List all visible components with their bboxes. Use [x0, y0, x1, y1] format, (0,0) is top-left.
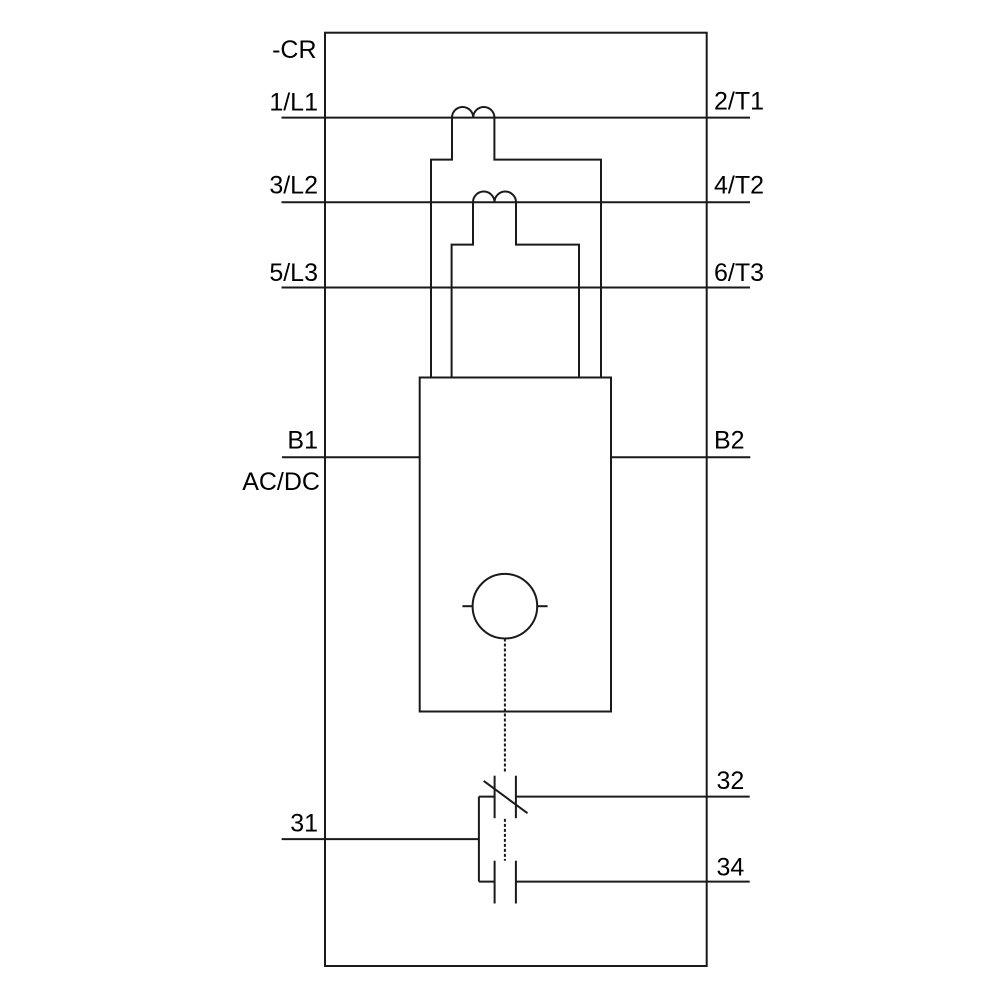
wire phase L1 [282, 117, 751, 119]
current transformer CT1 on L1 with leads to relay body [431, 107, 601, 378]
button tick left [462, 605, 472, 607]
wire NO left stub [479, 881, 495, 883]
wire supply B1 [282, 456, 420, 458]
wire phase L2 [282, 201, 751, 203]
NO contact 31-34 right bar [515, 861, 517, 904]
mechanical link dashed (between contacts) [504, 819, 506, 861]
test/reset button circle [473, 574, 538, 639]
wire supply B2 [611, 456, 750, 458]
NO contact 31-34 left bar [494, 861, 496, 904]
svg-text:5/L3: 5/L3 [269, 259, 318, 287]
wire NC left stub [479, 796, 495, 798]
wire terminal 34 [516, 881, 750, 883]
button tick right [537, 605, 547, 607]
relay body [420, 378, 611, 712]
svg-text:B1: B1 [287, 427, 318, 455]
svg-text:AC/DC: AC/DC [242, 468, 320, 496]
svg-text:6/T3: 6/T3 [714, 259, 764, 287]
enclosure boundary box [325, 33, 707, 966]
wire terminal 32 [516, 796, 750, 798]
svg-text:34: 34 [717, 853, 745, 881]
wire common bracket 31 [478, 797, 480, 882]
svg-text:4/T2: 4/T2 [714, 172, 764, 200]
mechanical link dashed (button to contacts) [504, 639, 506, 774]
wire phase L3 [282, 287, 751, 289]
svg-text:-CR: -CR [272, 36, 316, 64]
wire terminal 31 [282, 838, 479, 840]
svg-text:31: 31 [290, 810, 318, 838]
svg-text:B2: B2 [714, 427, 745, 455]
svg-text:1/L1: 1/L1 [269, 89, 318, 117]
svg-text:3/L2: 3/L2 [269, 172, 318, 200]
current transformer CT2 on L2 with leads to relay body [452, 192, 579, 378]
svg-text:2/T1: 2/T1 [714, 87, 764, 115]
NC contact 31-32 left bar [494, 776, 496, 819]
svg-text:32: 32 [717, 767, 745, 795]
NC contact 31-32 right bar [515, 776, 517, 819]
NC contact slash [484, 781, 528, 813]
